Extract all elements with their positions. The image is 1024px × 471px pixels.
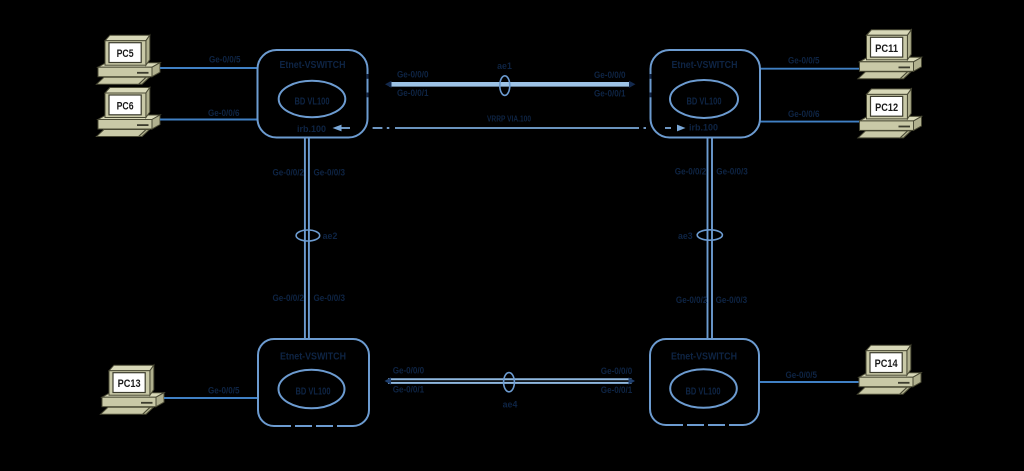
svg-text:Ge-0/0/6: Ge-0/0/6 bbox=[208, 108, 240, 118]
svg-text:BD VL100: BD VL100 bbox=[686, 386, 721, 397]
svg-text:VRRP VIA.100: VRRP VIA.100 bbox=[487, 114, 531, 124]
svg-text:PC12: PC12 bbox=[875, 102, 898, 114]
svg-text:ae1: ae1 bbox=[497, 61, 512, 71]
svg-text:Etnet-VSWITCH: Etnet-VSWITCH bbox=[671, 351, 737, 362]
svg-text:Etnet-VSWITCH: Etnet-VSWITCH bbox=[280, 60, 346, 71]
svg-text:Ge-0/0/0: Ge-0/0/0 bbox=[594, 70, 626, 80]
svg-text:BD VL100: BD VL100 bbox=[296, 386, 331, 397]
svg-text:PC5: PC5 bbox=[117, 48, 134, 60]
svg-text:ae4: ae4 bbox=[503, 400, 518, 410]
svg-text:Ge-0/0/6: Ge-0/0/6 bbox=[788, 109, 820, 119]
svg-text:PC13: PC13 bbox=[118, 378, 141, 390]
svg-text:BD VL100: BD VL100 bbox=[687, 96, 722, 107]
svg-text:Ge-0/0/3: Ge-0/0/3 bbox=[314, 293, 346, 303]
svg-text:Etnet-VSWITCH: Etnet-VSWITCH bbox=[672, 60, 738, 71]
svg-text:Ge-0/0/3: Ge-0/0/3 bbox=[716, 295, 748, 305]
svg-text:Ge-0/0/3: Ge-0/0/3 bbox=[716, 167, 748, 177]
svg-text:Ge-0/0/5: Ge-0/0/5 bbox=[208, 386, 240, 396]
svg-text:Ge-0/0/1: Ge-0/0/1 bbox=[601, 385, 633, 395]
svg-text:BD VL100: BD VL100 bbox=[295, 96, 330, 107]
svg-text:Ge-0/0/3: Ge-0/0/3 bbox=[314, 168, 346, 178]
svg-text:PC14: PC14 bbox=[875, 358, 899, 370]
svg-text:Ge-0/0/0: Ge-0/0/0 bbox=[393, 365, 425, 375]
svg-text:Ge-0/0/0: Ge-0/0/0 bbox=[397, 70, 429, 80]
svg-text:irb.100: irb.100 bbox=[297, 124, 326, 135]
svg-text:PC11: PC11 bbox=[875, 43, 898, 55]
svg-text:Etnet-VSWITCH: Etnet-VSWITCH bbox=[280, 351, 346, 362]
svg-text:PC6: PC6 bbox=[117, 101, 134, 113]
svg-text:Ge-0/0/0: Ge-0/0/0 bbox=[601, 366, 633, 376]
svg-text:Ge-0/0/5: Ge-0/0/5 bbox=[788, 56, 820, 66]
svg-text:Ge-0/0/2: Ge-0/0/2 bbox=[273, 293, 305, 303]
svg-text:Ge-0/0/2: Ge-0/0/2 bbox=[675, 167, 707, 177]
svg-text:Ge-0/0/5: Ge-0/0/5 bbox=[209, 55, 241, 65]
svg-text:ae2: ae2 bbox=[323, 231, 338, 241]
svg-text:Ge-0/0/1: Ge-0/0/1 bbox=[393, 385, 425, 395]
svg-text:irb.100: irb.100 bbox=[689, 123, 718, 134]
svg-text:Ge-0/0/1: Ge-0/0/1 bbox=[397, 88, 429, 98]
svg-text:Ge-0/0/5: Ge-0/0/5 bbox=[786, 370, 818, 380]
svg-text:Ge-0/0/2: Ge-0/0/2 bbox=[273, 168, 305, 178]
svg-text:Ge-0/0/2: Ge-0/0/2 bbox=[676, 295, 708, 305]
svg-text:ae3: ae3 bbox=[678, 231, 693, 241]
svg-text:Ge-0/0/1: Ge-0/0/1 bbox=[594, 89, 626, 99]
